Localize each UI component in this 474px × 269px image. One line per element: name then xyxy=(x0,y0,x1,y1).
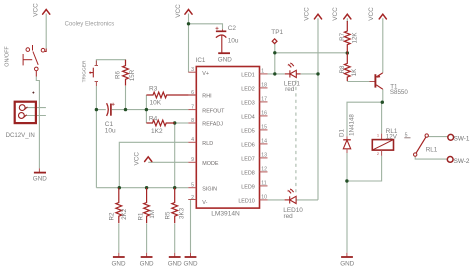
svg-text:C2: C2 xyxy=(228,25,237,32)
svg-text:SIGIN: SIGIN xyxy=(202,186,217,192)
svg-text:15: 15 xyxy=(261,125,267,131)
svg-text:R6: R6 xyxy=(114,70,121,78)
svg-text:2: 2 xyxy=(191,195,194,201)
svg-text:REFADJ: REFADJ xyxy=(202,122,223,128)
svg-text:LED2: LED2 xyxy=(241,87,255,93)
svg-text:3: 3 xyxy=(191,67,194,73)
svg-text:4: 4 xyxy=(191,137,194,143)
svg-text:MODE: MODE xyxy=(202,161,219,167)
svg-text:VCC: VCC xyxy=(332,7,339,21)
svg-text:1K2: 1K2 xyxy=(151,128,163,135)
svg-text:1M: 1M xyxy=(149,210,156,219)
svg-text:RHI: RHI xyxy=(202,94,211,100)
svg-text:7: 7 xyxy=(191,104,194,110)
svg-text:1: 1 xyxy=(261,69,264,75)
svg-text:R4: R4 xyxy=(149,115,158,122)
svg-text:12: 12 xyxy=(261,167,267,173)
svg-text:RL1: RL1 xyxy=(426,147,438,154)
svg-text:GND: GND xyxy=(340,260,354,267)
svg-text:R3: R3 xyxy=(149,86,158,93)
svg-text:LED3: LED3 xyxy=(241,101,255,107)
svg-text:SW-2: SW-2 xyxy=(454,158,470,165)
svg-text:V+: V+ xyxy=(202,71,209,77)
svg-text:VCC: VCC xyxy=(134,152,141,166)
svg-text:LED5: LED5 xyxy=(241,129,255,135)
svg-text:REFOUT: REFOUT xyxy=(202,108,225,114)
svg-text:RLD: RLD xyxy=(202,141,213,147)
svg-text:11: 11 xyxy=(261,181,266,187)
svg-text:red: red xyxy=(285,86,295,93)
svg-text:SW-1: SW-1 xyxy=(454,136,470,143)
svg-text:15R: 15R xyxy=(129,69,136,81)
svg-text:S8550: S8550 xyxy=(390,89,408,96)
svg-text:D1: D1 xyxy=(339,128,346,136)
svg-text:GND: GND xyxy=(168,260,182,267)
svg-text:14: 14 xyxy=(261,139,267,145)
svg-text:12K: 12K xyxy=(351,32,358,44)
svg-text:R5: R5 xyxy=(165,211,172,219)
svg-text:GND: GND xyxy=(33,175,47,182)
svg-text:LED1: LED1 xyxy=(241,73,255,79)
svg-text:R1: R1 xyxy=(138,212,145,220)
svg-text:2: 2 xyxy=(377,152,379,156)
svg-text:GND: GND xyxy=(112,260,126,267)
svg-text:17: 17 xyxy=(261,97,267,103)
svg-text:1: 1 xyxy=(377,134,379,138)
svg-text:1K: 1K xyxy=(351,68,358,76)
svg-text:VCC: VCC xyxy=(368,7,375,21)
svg-text:12V: 12V xyxy=(386,134,398,141)
svg-text:LED8: LED8 xyxy=(241,171,255,177)
svg-text:LM3914N: LM3914N xyxy=(211,210,240,217)
svg-text:ON/OFF: ON/OFF xyxy=(5,46,11,67)
svg-text:18: 18 xyxy=(261,83,267,89)
svg-text:V-: V- xyxy=(202,200,207,206)
svg-text:GND: GND xyxy=(140,260,154,267)
svg-text:1N4148: 1N4148 xyxy=(349,114,356,136)
svg-text:10u: 10u xyxy=(228,38,239,45)
svg-text:IC1: IC1 xyxy=(196,57,206,64)
svg-text:LED9: LED9 xyxy=(241,185,255,191)
svg-text:LED4: LED4 xyxy=(241,115,255,121)
svg-text:3K3: 3K3 xyxy=(179,207,186,219)
svg-text:GND: GND xyxy=(184,260,198,267)
svg-text:R8: R8 xyxy=(339,65,346,73)
svg-text:6: 6 xyxy=(191,90,194,96)
svg-text:5: 5 xyxy=(191,183,194,189)
svg-text:VCC: VCC xyxy=(304,7,311,21)
svg-text:5: 5 xyxy=(405,133,408,139)
svg-text:TRIGGER: TRIGGER xyxy=(82,60,88,82)
svg-text:13: 13 xyxy=(261,153,267,159)
svg-text:2K2: 2K2 xyxy=(121,208,128,220)
svg-text:9: 9 xyxy=(191,157,194,163)
svg-text:DC12V_IN: DC12V_IN xyxy=(6,132,35,139)
svg-text:10u: 10u xyxy=(105,127,116,134)
svg-text:TP1: TP1 xyxy=(271,29,283,36)
svg-text:16: 16 xyxy=(261,111,267,117)
svg-text:VCC: VCC xyxy=(175,4,182,18)
svg-text:R7: R7 xyxy=(339,32,346,40)
svg-text:red: red xyxy=(284,213,294,220)
svg-text:LED6: LED6 xyxy=(241,143,255,149)
svg-text:R2: R2 xyxy=(108,212,115,220)
svg-text:10: 10 xyxy=(261,195,267,201)
svg-text:Cooley Electronics: Cooley Electronics xyxy=(65,22,115,28)
svg-text:GND: GND xyxy=(218,56,232,63)
svg-text:10K: 10K xyxy=(150,100,162,107)
svg-text:8: 8 xyxy=(191,118,194,124)
svg-text:VCC: VCC xyxy=(32,3,39,17)
svg-text:LED10: LED10 xyxy=(238,199,254,205)
svg-text:LED7: LED7 xyxy=(241,157,255,163)
